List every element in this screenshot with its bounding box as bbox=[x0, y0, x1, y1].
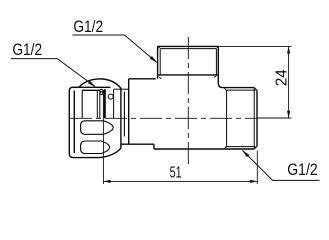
svg-text:G1/2: G1/2 bbox=[12, 40, 42, 59]
svg-text:G1/2: G1/2 bbox=[287, 160, 317, 179]
svg-text:G1/2: G1/2 bbox=[73, 17, 103, 36]
svg-text:24: 24 bbox=[273, 69, 290, 86]
svg-text:51: 51 bbox=[170, 164, 182, 181]
